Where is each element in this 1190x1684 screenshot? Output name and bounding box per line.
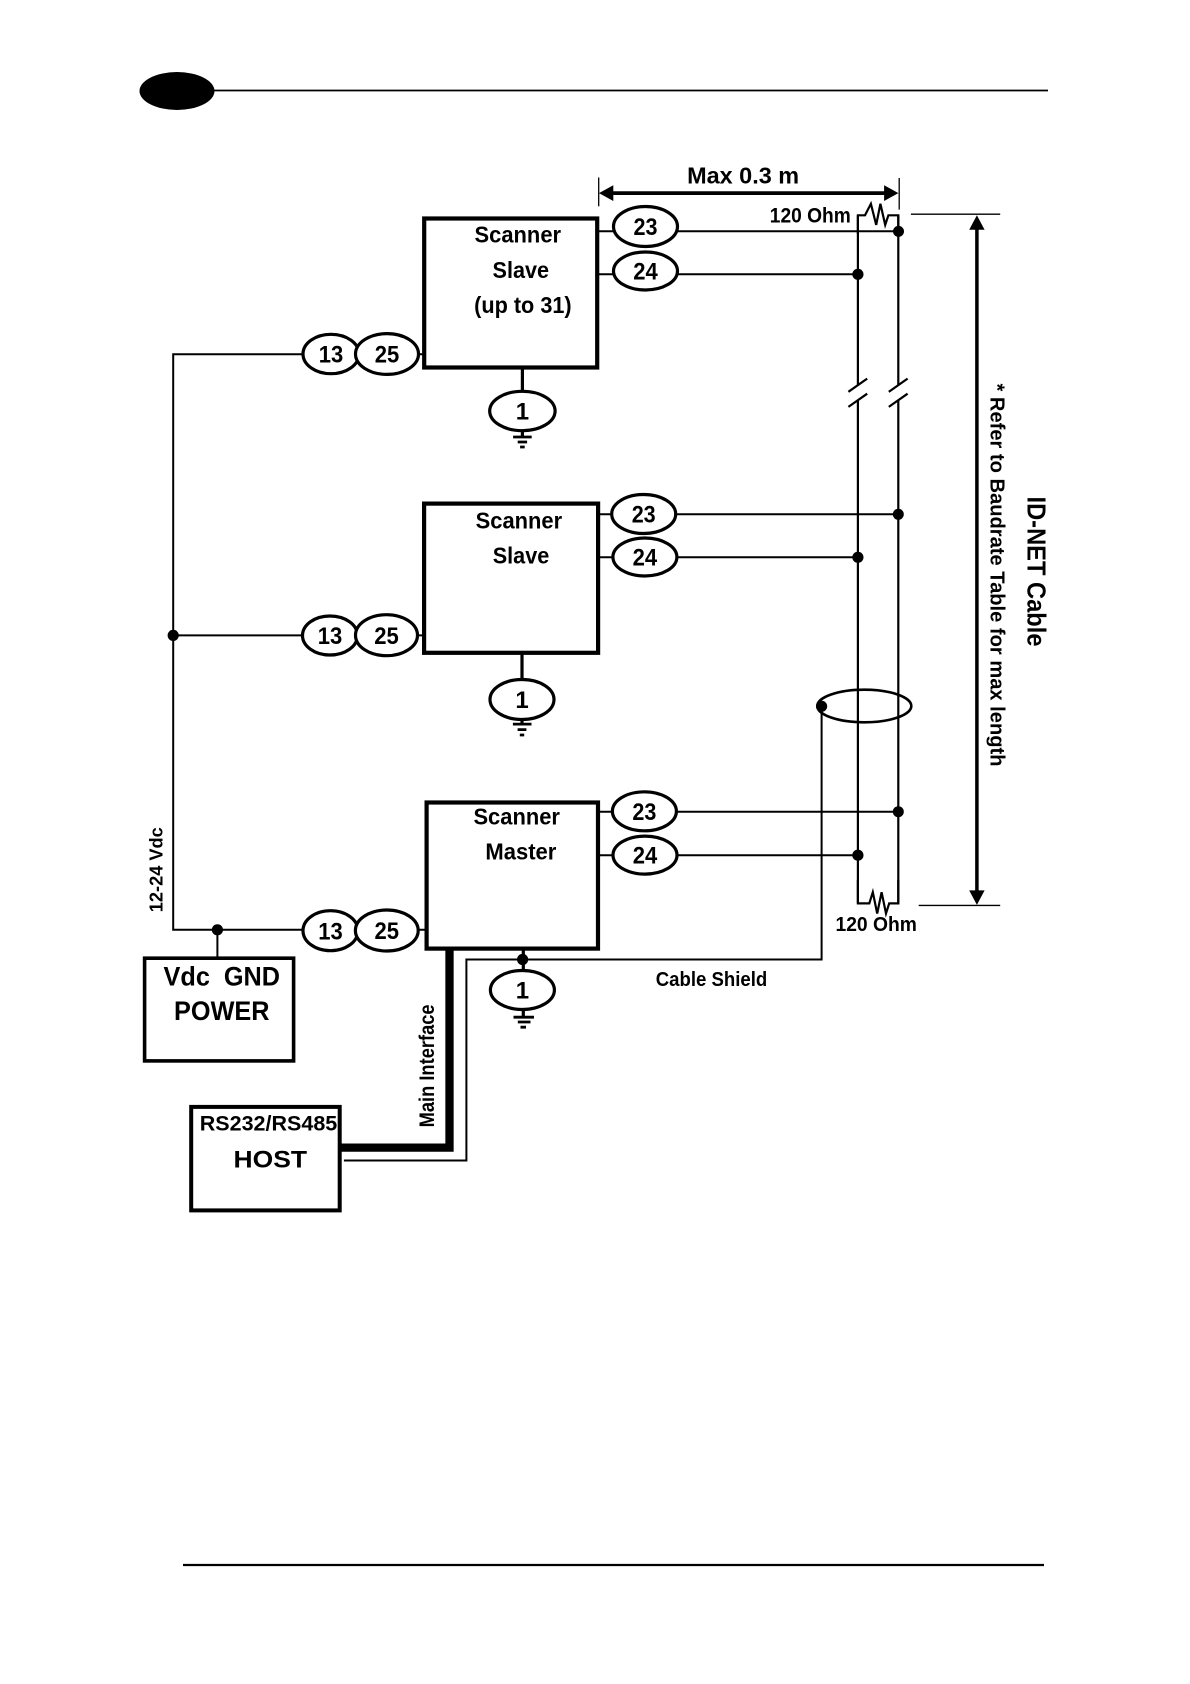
svg-text:120 Ohm: 120 Ohm bbox=[836, 913, 917, 936]
svg-text:Vdc GND: Vdc GND bbox=[164, 962, 281, 992]
svg-text:Scanner: Scanner bbox=[476, 508, 563, 534]
svg-text:1: 1 bbox=[515, 687, 528, 714]
svg-text:1: 1 bbox=[516, 399, 529, 426]
svg-text:1: 1 bbox=[516, 978, 529, 1005]
svg-text:POWER: POWER bbox=[174, 996, 270, 1026]
svg-text:120 Ohm: 120 Ohm bbox=[770, 205, 851, 228]
svg-text:12-24 Vdc: 12-24 Vdc bbox=[147, 827, 167, 912]
svg-text:25: 25 bbox=[375, 918, 400, 945]
svg-text:23: 23 bbox=[632, 502, 656, 529]
svg-text:13: 13 bbox=[318, 623, 343, 650]
svg-text:HOST: HOST bbox=[234, 1147, 308, 1174]
svg-text:Scanner: Scanner bbox=[475, 222, 562, 248]
svg-text:(up to 31): (up to 31) bbox=[474, 292, 572, 318]
svg-text:24: 24 bbox=[633, 843, 658, 870]
svg-text:Scanner: Scanner bbox=[473, 804, 560, 830]
svg-text:24: 24 bbox=[633, 545, 658, 572]
svg-text:Cable Shield: Cable Shield bbox=[656, 968, 768, 991]
svg-text:Slave: Slave bbox=[493, 257, 550, 283]
svg-text:* Refer to Baudrate Table for: * Refer to Baudrate Table for max length bbox=[986, 384, 1008, 767]
svg-text:Master: Master bbox=[485, 839, 556, 865]
svg-text:Max 0.3 m: Max 0.3 m bbox=[687, 163, 799, 189]
svg-text:23: 23 bbox=[634, 214, 658, 241]
svg-text:23: 23 bbox=[632, 799, 656, 826]
svg-text:13: 13 bbox=[318, 918, 343, 945]
svg-text:RS232/RS485: RS232/RS485 bbox=[200, 1112, 338, 1135]
svg-text:ID-NET Cable: ID-NET Cable bbox=[1022, 497, 1052, 647]
svg-text:13: 13 bbox=[319, 342, 344, 369]
svg-text:25: 25 bbox=[375, 342, 400, 369]
svg-text:Main Interface: Main Interface bbox=[416, 1004, 439, 1127]
svg-text:Slave: Slave bbox=[493, 543, 550, 569]
svg-text:25: 25 bbox=[374, 623, 399, 650]
svg-text:24: 24 bbox=[633, 259, 658, 286]
